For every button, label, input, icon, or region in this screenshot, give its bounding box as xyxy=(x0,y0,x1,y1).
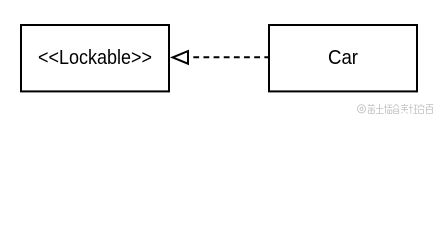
svg-text:Car: Car xyxy=(328,46,358,69)
svg-text:<<Lockable>>: <<Lockable>> xyxy=(38,46,152,69)
